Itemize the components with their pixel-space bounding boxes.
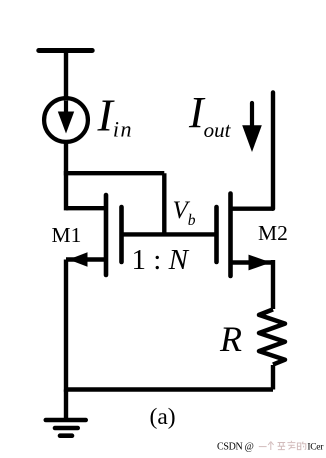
wire xyxy=(64,51,68,99)
arrow I_out xyxy=(242,103,262,152)
power rail xyxy=(39,48,92,53)
svg-text:1 : N: 1 : N xyxy=(132,244,190,276)
transistor M1 xyxy=(66,195,122,275)
resistor R xyxy=(259,260,285,390)
wire M2 drain xyxy=(231,206,274,210)
svg-text:Iin: Iin xyxy=(97,90,133,142)
wire M1 drain xyxy=(66,206,106,210)
svg-text:ICer: ICer xyxy=(307,443,324,453)
wire gate rail xyxy=(122,232,217,236)
wire xyxy=(162,173,166,234)
ground xyxy=(46,390,86,436)
svg-text:Vb: Vb xyxy=(173,197,196,229)
current source I_in xyxy=(44,98,88,142)
wire xyxy=(271,92,275,208)
svg-text:Iout: Iout xyxy=(188,88,232,142)
svg-text:R: R xyxy=(219,319,242,359)
wire xyxy=(64,142,68,210)
transistor M2 xyxy=(217,194,274,277)
wire xyxy=(64,260,68,392)
svg-text:M1: M1 xyxy=(52,223,82,247)
svg-text:(a): (a) xyxy=(150,404,176,430)
wire bottom rail xyxy=(66,387,273,392)
svg-text:CSDN @: CSDN @ xyxy=(217,442,254,453)
wire drain-gate branch xyxy=(64,171,165,175)
watermark xyxy=(217,441,324,453)
svg-text:M2: M2 xyxy=(258,221,288,245)
